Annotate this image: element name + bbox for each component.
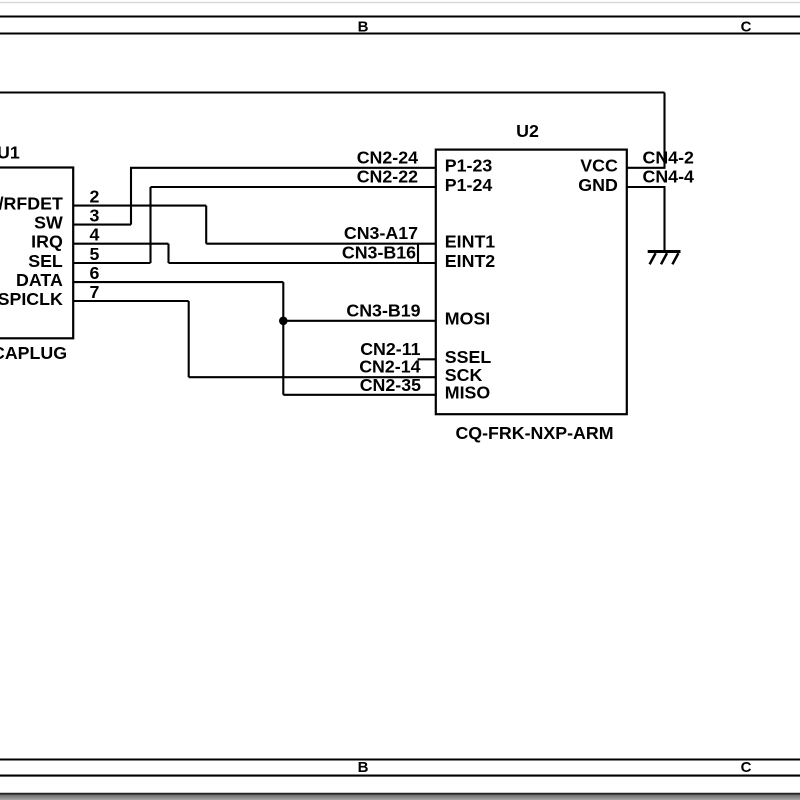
wire pin6 DATA horizontal [73,281,283,283]
wire pin3 vertical riser [130,168,132,225]
wire GND vertical to ground [663,187,665,251]
svg-text:P1-23: P1-23 [445,156,493,176]
svg-text:SW: SW [34,213,63,233]
svg-text:CN4-2: CN4-2 [643,147,694,167]
svg-text:B: B [358,759,369,776]
wire CN2-22 net horizontal [151,186,436,188]
svg-text:CN4-4: CN4-4 [643,167,694,187]
IC U2 body [436,150,627,415]
svg-text:U1: U1 [0,143,20,163]
junction dot MOSI branch [279,317,288,326]
wire pin4 IRQ horizontal [73,243,168,245]
svg-text:SEL: SEL [28,251,63,271]
wire EINT2 net horizontal [169,262,436,264]
wire VCC net vertical drop [663,93,665,168]
svg-text:3: 3 [90,205,100,225]
svg-text:B: B [358,19,369,36]
wire pin7 vertical drop [188,301,190,377]
wire EINT1 net horizontal [206,243,436,245]
wire SSEL pin stub [418,358,436,360]
ground symbol [648,252,681,265]
svg-text:MOSI: MOSI [445,309,490,329]
svg-text:DATA: DATA [16,270,63,290]
svg-text:MISO: MISO [445,383,491,403]
wire pin4 vertical jog [167,244,169,263]
wire MISO net horizontal [283,394,436,396]
wire VCC net top horizontal [0,91,665,93]
svg-text:CN2-22: CN2-22 [357,167,418,187]
svg-text:CN2-11: CN2-11 [360,339,420,359]
svg-text:VCC: VCC [580,156,618,176]
svg-text:CN3-B16: CN3-B16 [342,243,416,263]
wire pin2 vertical jog [205,206,207,244]
svg-text:/RFDET: /RFDET [0,194,63,214]
svg-text:U2: U2 [516,121,539,141]
svg-text:CN2-14: CN2-14 [359,357,420,377]
svg-text:IRQ: IRQ [31,232,63,252]
svg-text:CN3-A17: CN3-A17 [344,223,418,243]
svg-text:GND: GND [578,175,618,195]
svg-text:CAPLUG: CAPLUG [0,343,67,363]
svg-text:2: 2 [90,186,100,206]
wire GND pin horizontal [627,186,666,188]
svg-text:5: 5 [90,244,100,264]
svg-text:7: 7 [90,282,100,302]
svg-text:EINT2: EINT2 [445,251,496,271]
svg-text:C: C [741,19,752,36]
wire VCC pin to net [627,167,666,169]
svg-text:C: C [741,759,752,776]
svg-text:CN2-24: CN2-24 [357,147,418,167]
svg-text:EINT1: EINT1 [445,232,496,252]
svg-text:6: 6 [90,263,100,283]
svg-text:P1-24: P1-24 [445,175,493,195]
svg-text:SPICLK: SPICLK [0,289,63,309]
wire pin2 /RFDET horizontal [73,205,206,207]
wire CN2-24 net horizontal [130,167,436,169]
wire EINT2 label bracket vertical [417,244,419,263]
wire pin5 SEL horizontal [73,262,150,264]
wire SCK net horizontal [189,376,436,378]
wire pin5 vertical riser [149,187,151,263]
wire pin3 SW horizontal [73,224,131,226]
svg-text:CQ-FRK-NXP-ARM: CQ-FRK-NXP-ARM [455,423,613,443]
wire pin7 SPICLK horizontal [73,300,189,302]
wire MOSI net horizontal [283,320,436,322]
connector U1 body [0,168,73,339]
svg-text:4: 4 [90,225,100,245]
svg-text:CN3-B19: CN3-B19 [346,300,420,320]
wire pin6 vertical drop [282,282,284,395]
